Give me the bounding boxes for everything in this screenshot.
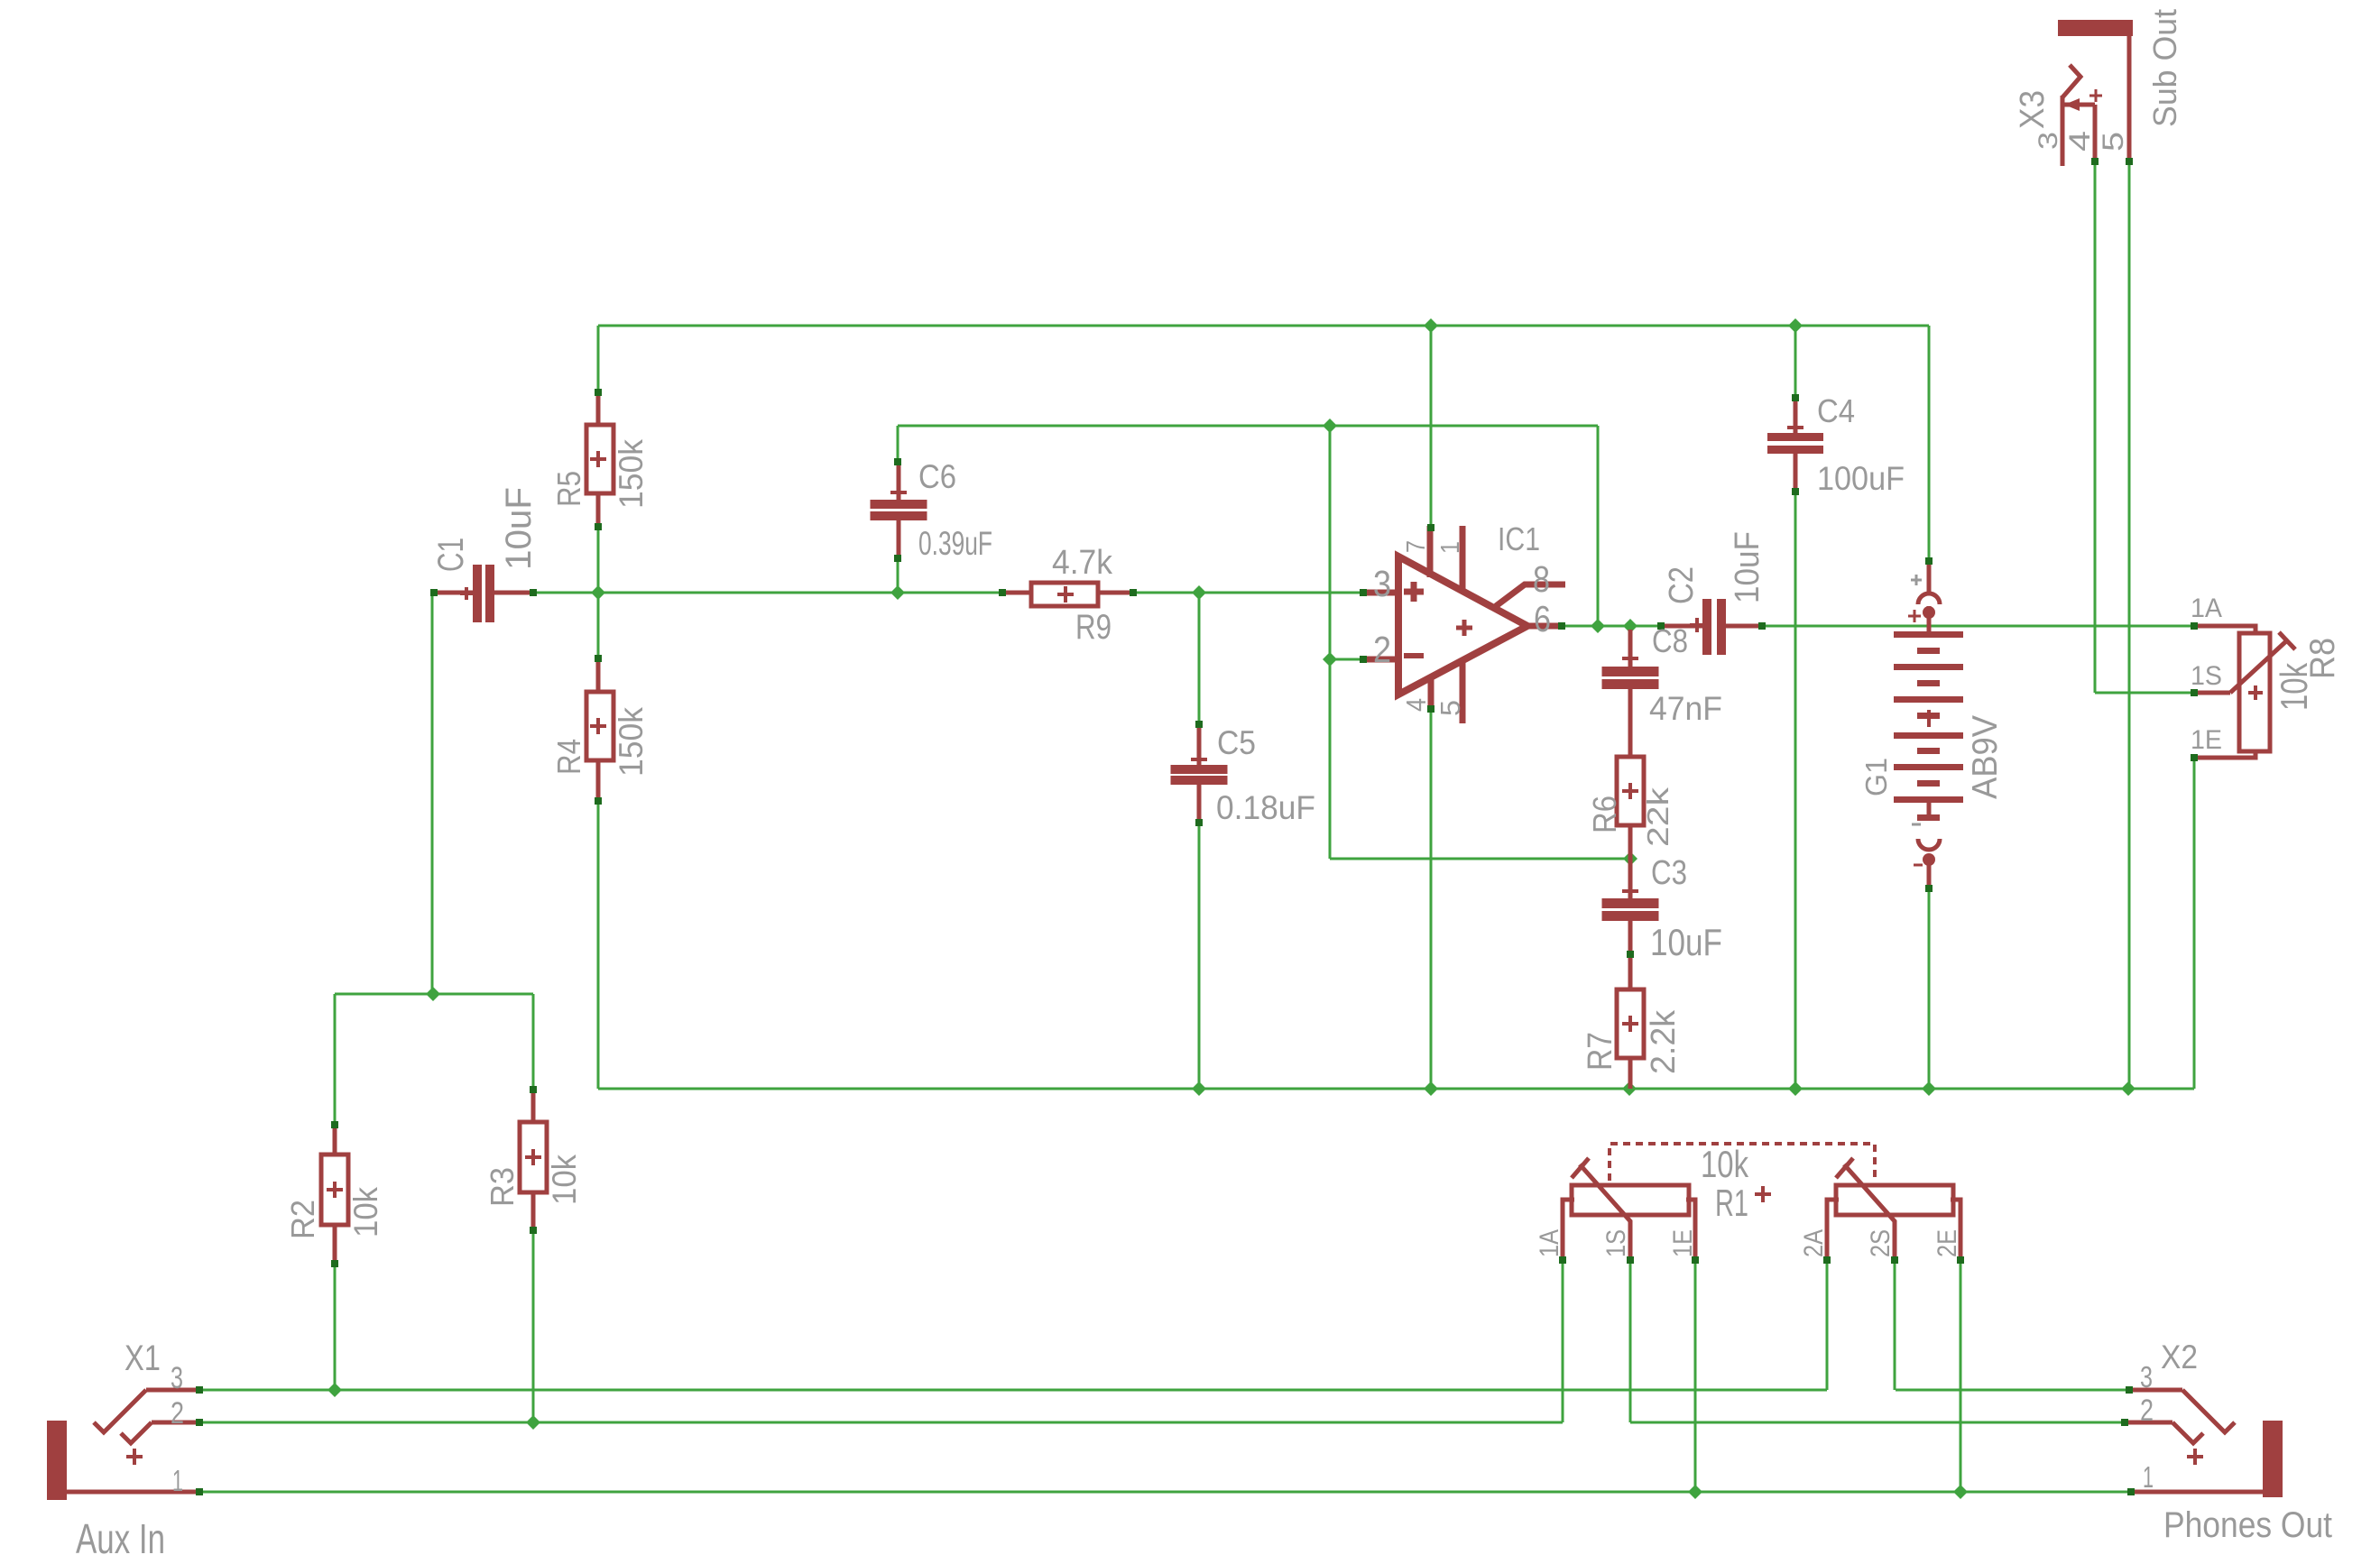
svg-text:10k: 10k <box>347 1187 384 1237</box>
svg-text:AB9V: AB9V <box>1966 715 2005 799</box>
svg-text:1A: 1A <box>1535 1229 1564 1257</box>
svg-text:10uF: 10uF <box>1650 921 1722 963</box>
svg-text:5: 5 <box>1434 700 1466 716</box>
svg-text:10k: 10k <box>1701 1143 1749 1185</box>
svg-text:4: 4 <box>1400 698 1432 712</box>
svg-text:1E: 1E <box>2191 725 2222 755</box>
svg-text:0.18uF: 0.18uF <box>1216 789 1315 826</box>
svg-text:C2: C2 <box>1663 566 1701 604</box>
svg-text:C4: C4 <box>1817 392 1855 429</box>
svg-text:3: 3 <box>2034 132 2063 150</box>
svg-text:X3: X3 <box>2014 90 2052 129</box>
svg-text:3: 3 <box>2140 1360 2153 1394</box>
svg-text:1: 1 <box>1436 541 1465 554</box>
svg-text:6: 6 <box>1534 598 1551 639</box>
svg-text:2A: 2A <box>1799 1229 1829 1257</box>
svg-text:C6: C6 <box>918 458 956 495</box>
svg-text:2.2k: 2.2k <box>1645 1009 1683 1074</box>
svg-text:Aux In: Aux In <box>76 1515 165 1562</box>
svg-text:3: 3 <box>1373 563 1391 604</box>
svg-text:10k: 10k <box>2273 662 2315 711</box>
svg-text:5: 5 <box>2097 132 2129 152</box>
svg-text:1: 1 <box>172 1464 183 1497</box>
svg-text:2S: 2S <box>1866 1229 1896 1257</box>
svg-text:7: 7 <box>1402 540 1431 553</box>
svg-text:Phones Out: Phones Out <box>2163 1505 2332 1545</box>
svg-text:R1: R1 <box>1715 1182 1748 1224</box>
svg-text:C8: C8 <box>1652 622 1688 659</box>
svg-text:R7: R7 <box>1582 1032 1619 1071</box>
svg-text:1S: 1S <box>2191 661 2222 691</box>
svg-text:G1: G1 <box>1859 758 1893 796</box>
svg-text:R9: R9 <box>1075 608 1112 647</box>
svg-text:X2: X2 <box>2161 1339 2198 1375</box>
svg-text:10k: 10k <box>546 1155 583 1205</box>
svg-text:IC1: IC1 <box>1498 520 1540 557</box>
svg-text:1: 1 <box>2143 1460 2154 1494</box>
svg-text:Sub Out: Sub Out <box>2146 9 2183 127</box>
svg-text:C1: C1 <box>431 538 471 572</box>
svg-text:10uF: 10uF <box>1729 531 1767 603</box>
svg-text:R3: R3 <box>484 1167 521 1207</box>
svg-text:1S: 1S <box>1601 1229 1631 1257</box>
svg-text:4: 4 <box>2063 131 2096 152</box>
svg-text:C3: C3 <box>1651 854 1687 892</box>
svg-text:2: 2 <box>171 1396 184 1431</box>
svg-text:47nF: 47nF <box>1649 690 1722 727</box>
svg-text:1E: 1E <box>1668 1229 1698 1257</box>
svg-text:100uF: 100uF <box>1817 460 1905 497</box>
svg-text:3: 3 <box>171 1361 183 1395</box>
svg-text:10uF: 10uF <box>499 487 539 570</box>
svg-text:0.39uF: 0.39uF <box>918 525 992 562</box>
svg-text:R6: R6 <box>1586 796 1623 833</box>
svg-text:X1: X1 <box>125 1339 161 1378</box>
svg-text:8: 8 <box>1533 558 1550 600</box>
svg-text:150k: 150k <box>613 707 650 777</box>
svg-text:R4: R4 <box>550 739 587 775</box>
svg-text:R2: R2 <box>284 1200 321 1239</box>
svg-text:2E: 2E <box>1933 1229 1962 1257</box>
svg-text:22k: 22k <box>1641 787 1674 847</box>
svg-text:R5: R5 <box>550 471 587 507</box>
svg-text:150k: 150k <box>613 439 650 509</box>
svg-text:4.7k: 4.7k <box>1052 544 1113 582</box>
svg-text:2: 2 <box>2140 1394 2154 1428</box>
svg-text:C5: C5 <box>1217 724 1256 761</box>
svg-text:1A: 1A <box>2191 593 2222 623</box>
svg-text:2: 2 <box>1373 629 1391 670</box>
